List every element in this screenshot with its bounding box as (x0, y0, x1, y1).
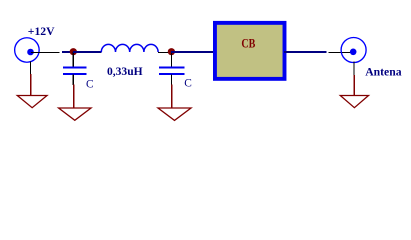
pin C2 bottom (171, 74, 173, 84)
svg-text:0,33uH: 0,33uH (107, 64, 143, 78)
svg-text:+12V: +12V (28, 24, 55, 38)
wire W3 (171, 51, 216, 53)
wire W4 (284, 51, 327, 53)
svg-text:Antena: Antena (365, 65, 401, 79)
sheet symbol CB box (215, 23, 285, 79)
ground GND3 (158, 84, 191, 120)
capacitor C2 (159, 67, 184, 74)
ground GND2 (59, 84, 91, 120)
connector J1 (+12V coax) (15, 38, 40, 63)
pin C2 top (171, 52, 173, 67)
inductor L1 (101, 44, 158, 52)
pin L1 right (158, 52, 171, 54)
ground GND1 (17, 74, 47, 108)
ground GND4 (340, 75, 368, 108)
wire W2 (73, 51, 102, 53)
svg-text:C: C (86, 77, 94, 91)
pin J1 right (31, 52, 60, 54)
pin J2 down (353, 62, 355, 76)
junction node N1 (70, 48, 77, 55)
pin J2 left (328, 52, 353, 54)
pin J1 down (30, 62, 32, 75)
connector J2 (Antena coax) (341, 38, 366, 63)
wire W1 (62, 51, 73, 53)
svg-text:C: C (184, 76, 192, 90)
pin C1 bottom (72, 74, 74, 84)
capacitor C1 (63, 67, 86, 74)
pin C1 top (72, 52, 74, 67)
svg-text:CB: CB (241, 37, 255, 51)
junction node N2 (168, 48, 175, 55)
